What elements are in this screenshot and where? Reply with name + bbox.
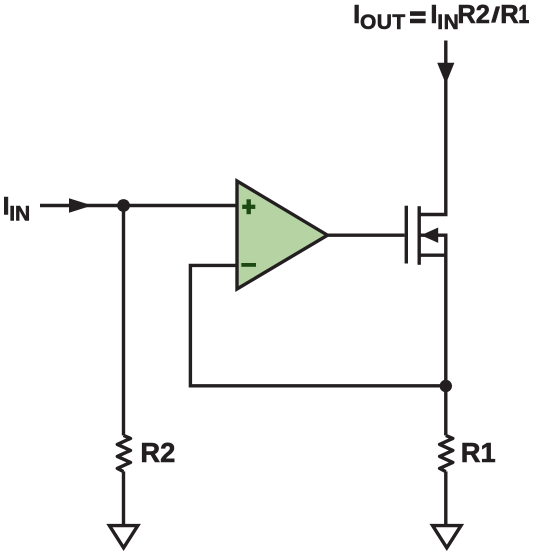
svg-text:R2: R2	[457, 1, 490, 29]
svg-text:OUT: OUT	[360, 11, 406, 34]
svg-text:IN: IN	[9, 203, 30, 226]
svg-text:R1: R1	[461, 437, 496, 468]
svg-text:/: /	[491, 3, 501, 27]
svg-text:IN: IN	[437, 11, 459, 34]
svg-text:=: =	[410, 1, 426, 32]
svg-text:R: R	[500, 1, 518, 29]
svg-text:1: 1	[518, 0, 529, 29]
svg-text:R2: R2	[140, 437, 175, 468]
